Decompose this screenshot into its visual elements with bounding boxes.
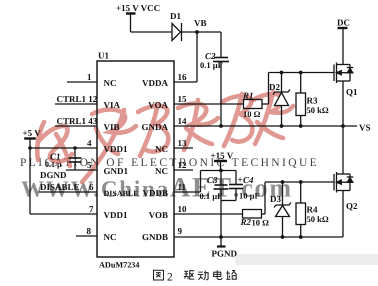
svg-text:0.1 µF: 0.1 µF: [200, 60, 223, 70]
junction R4 top: [299, 180, 303, 184]
watermark red script char 4: [178, 100, 218, 150]
capacitor C1: [74, 148, 76, 158]
svg-text:10: 10: [178, 204, 188, 214]
svg-text:VIB: VIB: [104, 122, 120, 132]
svg-text:PGND: PGND: [212, 249, 238, 259]
svg-text:GNDB: GNDB: [142, 232, 168, 242]
svg-text:VDD1: VDD1: [104, 210, 128, 220]
svg-text:VDDA: VDDA: [142, 78, 168, 88]
mosfet Q1: [333, 65, 335, 82]
junction D2 bottom: [280, 124, 284, 128]
svg-text:13: 13: [178, 138, 188, 148]
svg-text:+5 V: +5 V: [23, 128, 42, 138]
svg-text:2: 2: [167, 272, 173, 284]
svg-text:0.1 µF: 0.1 µF: [200, 191, 223, 201]
svg-text:DISABLE: DISABLE: [104, 189, 139, 198]
svg-text:VIA: VIA: [104, 100, 121, 110]
wire pin6 DISABLE: [39, 191, 97, 193]
junction +15V rail: [219, 169, 223, 173]
wire pin2 CTRL1: [55, 103, 97, 105]
svg-text:D3: D3: [270, 194, 281, 204]
glyph 图: [154, 270, 164, 280]
watermark red script char 5: [222, 94, 252, 146]
glyph 动: [198, 271, 208, 280]
svg-text:VS: VS: [359, 123, 371, 133]
svg-text:15: 15: [178, 94, 188, 104]
svg-text:ADuM7234: ADuM7234: [99, 261, 139, 270]
svg-text:11: 11: [178, 182, 187, 192]
mosfet Q2: [333, 174, 335, 191]
zener D3: [282, 182, 284, 205]
svg-text:NC: NC: [104, 232, 117, 242]
svg-text:VDD1: VDD1: [104, 144, 128, 154]
svg-text:12: 12: [178, 160, 188, 170]
svg-text:D1: D1: [170, 11, 181, 21]
svg-text:NC: NC: [104, 78, 117, 88]
wire VDDB pin11 to +15V rail: [174, 191, 201, 193]
svg-text:7: 7: [89, 204, 94, 214]
svg-text:+15 V VCC: +15 V VCC: [116, 3, 160, 13]
svg-text:10 Ω: 10 Ω: [243, 109, 261, 119]
svg-text:Q2: Q2: [346, 201, 358, 211]
svg-text:U1: U1: [98, 51, 109, 61]
svg-text:C3: C3: [207, 175, 218, 185]
svg-text:0.1 µ: 0.1 µ: [45, 160, 62, 169]
wire VB riser to pin16: [196, 32, 198, 82]
svg-text:CTRL1 43: CTRL1 43: [57, 116, 98, 126]
svg-text:10 Ω: 10 Ω: [252, 218, 270, 228]
glyph 路: [226, 271, 237, 280]
resistor R4: [300, 182, 302, 203]
svg-text:16: 16: [178, 72, 188, 82]
svg-text:R1: R1: [242, 91, 254, 101]
+5V terminal: [24, 137, 36, 139]
svg-text:VDDB: VDDB: [142, 188, 168, 198]
wire DC to Q1 drain: [342, 28, 344, 65]
svg-text:VOB: VOB: [149, 210, 168, 220]
svg-text:DGND: DGND: [40, 170, 67, 180]
wire gate rail Q2: [265, 181, 334, 183]
svg-text:GND1: GND1: [104, 166, 129, 176]
glyph 电: [214, 270, 222, 279]
resistor R1: [244, 100, 263, 109]
svg-text:DISABLE: DISABLE: [40, 182, 80, 192]
junction D3 bottom: [281, 235, 285, 239]
svg-text:D2: D2: [269, 82, 280, 92]
zener D2: [281, 73, 283, 93]
wire Q1 source to VS: [342, 81, 344, 126]
wire pin3 CTRL2: [55, 125, 97, 127]
junction +5V/pin4: [28, 146, 32, 150]
svg-text:10 µF: 10 µF: [239, 191, 260, 201]
capacitor C4 electrolytic: [235, 171, 237, 185]
wire D1 to VB elbow: [182, 31, 222, 33]
wire pin4 +5V: [30, 147, 97, 149]
wire R2 to gate riser 2: [262, 213, 266, 215]
wire pin12 stub: [174, 169, 193, 171]
junction D2 top: [280, 71, 284, 75]
svg-text:VOA: VOA: [148, 100, 168, 110]
wire pin5 DGND: [66, 169, 97, 171]
wire GNDB pin9 rail: [174, 236, 343, 238]
svg-text:+15 V: +15 V: [211, 151, 234, 161]
svg-text:Q1: Q1: [346, 87, 358, 97]
+15V VCC terminal: [126, 12, 136, 14]
wire pin7: [30, 213, 97, 215]
node VB junction: [195, 30, 199, 34]
watermark red script char 2: [82, 110, 136, 183]
wire VOA pin15 to R1: [174, 103, 244, 105]
wire VCC to D1: [131, 31, 173, 33]
svg-text:14: 14: [178, 116, 188, 126]
junction C3/PGND: [219, 235, 223, 239]
svg-text:R3: R3: [307, 96, 318, 106]
svg-text:R4: R4: [307, 205, 318, 215]
svg-text:50 kΩ: 50 kΩ: [307, 105, 329, 115]
watermark red script char 6: [253, 92, 293, 144]
svg-text:NC: NC: [155, 144, 168, 154]
wire pin1 stub: [67, 81, 97, 83]
svg-text:DC: DC: [337, 18, 350, 28]
svg-text:C4: C4: [243, 175, 254, 185]
svg-text:5: 5: [87, 160, 92, 170]
wire pin13 stub: [174, 147, 193, 149]
junction R4 bottom: [299, 235, 303, 239]
junction C2/GNDA: [219, 124, 223, 128]
diode D1: [172, 24, 181, 41]
junction C1 top: [73, 146, 77, 150]
watermark red script char 1: [37, 122, 72, 166]
resistor R3: [300, 73, 302, 94]
junction R3 bottom: [299, 124, 303, 128]
svg-text:8: 8: [87, 226, 92, 236]
svg-text:1: 1: [87, 72, 92, 82]
wire GNDA / VS rail: [174, 125, 357, 127]
+15V terminal lower: [214, 160, 227, 162]
svg-text:NC: NC: [155, 166, 168, 176]
svg-text:CTRL1 12: CTRL1 12: [57, 94, 98, 104]
wire pin8 stub: [76, 235, 97, 237]
svg-text:9: 9: [178, 226, 183, 236]
faint scan band: [235, 254, 378, 265]
watermark red script char 3: [138, 104, 168, 156]
svg-text:6: 6: [89, 182, 94, 192]
svg-text:GNDA: GNDA: [142, 122, 169, 132]
junction D3 top: [281, 180, 285, 184]
svg-text:R2: R2: [240, 217, 252, 227]
resistor R2: [243, 210, 262, 219]
glyph 驱: [184, 271, 195, 280]
wire R1 to gate riser: [262, 103, 269, 105]
junction R3 top: [299, 71, 303, 75]
wire +5V vertical to pin7: [29, 148, 31, 214]
DC terminal: [338, 27, 348, 29]
svg-text:50 kΩ: 50 kΩ: [307, 214, 329, 224]
capacitor C2: [220, 32, 222, 58]
wire Q2 source to GNDB rail: [342, 191, 344, 238]
capacitor C3: [220, 171, 222, 186]
node VS junction: [341, 124, 345, 128]
svg-text:+: +: [238, 175, 243, 185]
svg-text:VB: VB: [194, 18, 207, 28]
svg-text:4: 4: [87, 138, 92, 148]
wire VOB pin10 to R2: [174, 213, 243, 215]
wire gate rail Q1: [269, 72, 335, 74]
wire Q2 drain to VS: [342, 126, 344, 174]
caption: 图 2 驱动电路 drawn as strokes: [154, 270, 237, 283]
PGND terminal: [220, 237, 222, 247]
IC U1 body ADuM7234: [97, 61, 174, 257]
